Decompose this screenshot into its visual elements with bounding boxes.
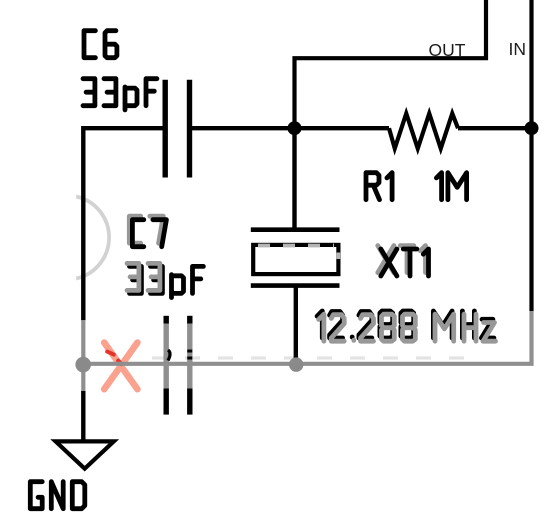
crystal XT1 body rectangle [253,245,338,274]
wire IN pin vertical (right, black part) [529,0,533,311]
capacitor C6 left plate [162,80,167,178]
crystal XT1 bottom electrode plate [251,283,340,288]
node D junction dot gray (crystal lead / bottom net) [289,357,303,371]
label OUT (IC pin name) [429,40,466,60]
wire bottom net (selected, gray): left junction across to right, up right side [83,311,532,364]
label 12.288 MHz (XT1 value, black ghost under gray) [317,311,495,341]
label 33pF (C6 value) [83,79,157,110]
wire crystal XT1 bottom lead down to bottom net [294,286,298,364]
label 1M (R1 value) [436,173,466,200]
node delete-cursor X mark (red) [104,343,137,390]
wire node A to resistor R1 left lead [295,126,390,130]
resistor R1 zigzag body [389,114,458,149]
node ghost-dashes (old net highlight along bottom wire) [152,356,468,359]
node ghost-arc (old highlight remnant near left wire) [76,197,109,279]
node A junction dot (294.5,128) [288,121,302,135]
ground symbol GND triangle [56,441,114,468]
crystal XT1 top electrode plate [251,227,340,232]
wire OUT pin stub (vertical from top) and horizontal run to node A [295,0,487,126]
label 33pF (C7 value, black under + gray 33 over) [127,263,203,297]
label XT1 (refdes, gray ghost + black) [378,246,429,276]
node C junction dot gray (left bottom) [75,357,91,373]
wire C6 right plate to node A [192,126,295,130]
capacitor C6 right plate [187,80,192,178]
node ghost-bar over crystal rect top edge [258,246,338,260]
node B junction dot (531.5,128) [525,121,539,135]
svg-text:OUT: OUT [429,40,466,60]
label R1 (refdes) [366,173,392,200]
label IN (IC pin name) [509,39,527,59]
label C7 (refdes, gray ghost + black) [129,216,166,247]
capacitor C7 left plate (gray mid, black tips) [166,316,170,415]
wire main horizontal: left corner to C6 left plate [83,128,163,320]
wire GND branch black segment below left junction [81,391,85,440]
capacitor C7 right plate (gray mid, black tips) [187,316,192,415]
label C6 (refdes) [84,31,117,58]
wire crystal XT1 top lead (node A down to top plate) [292,126,296,230]
wire resistor R1 right lead to node B [458,126,532,130]
svg-text:IN: IN [509,39,527,59]
label GND (net name) [30,482,85,509]
wire left vertical gray segment of selected net [81,320,85,392]
